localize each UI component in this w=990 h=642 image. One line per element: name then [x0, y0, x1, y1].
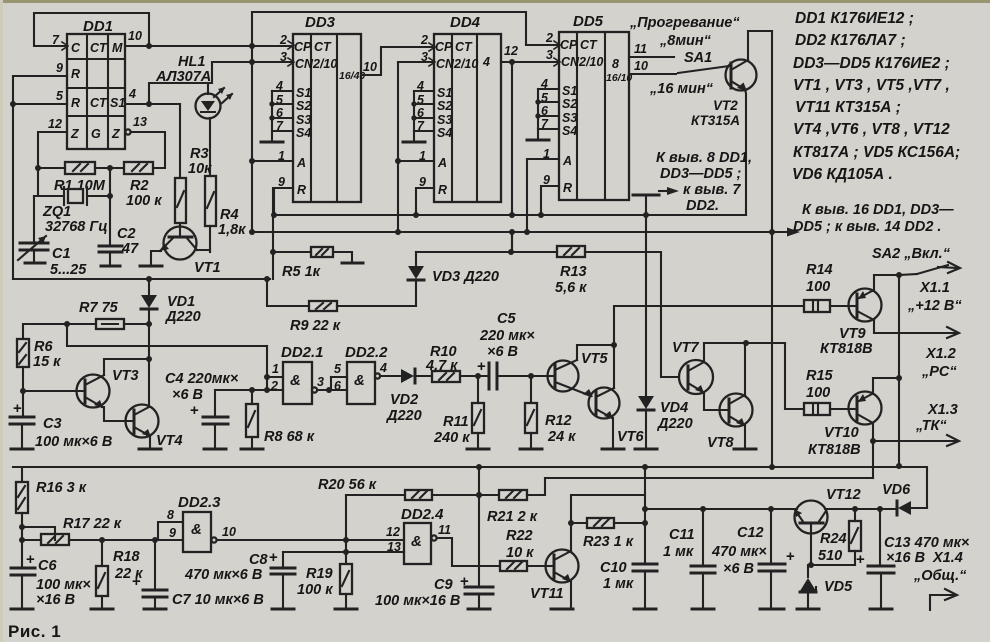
transistor VT7 [672, 340, 729, 410]
wire: main rail from VT2 area down [771, 31, 773, 467]
svg-text:S2: S2 [562, 97, 577, 111]
transistor VT1 [140, 227, 221, 277]
svg-text:2/10: 2/10 [453, 57, 478, 71]
svg-text:+: + [13, 400, 22, 417]
svg-text:VT11: VT11 [530, 586, 564, 602]
transistor VT6 [589, 345, 645, 449]
svg-text:C: C [71, 41, 81, 55]
transistor VT8 [707, 343, 756, 451]
resistor R20 [318, 477, 499, 500]
svg-text:Д220: Д220 [656, 416, 693, 432]
svg-text:5: 5 [334, 362, 342, 376]
capacitor C6 [11, 551, 91, 609]
svg-text:VT8: VT8 [707, 435, 735, 451]
svg-text:S4: S4 [562, 124, 577, 138]
svg-text:9: 9 [278, 175, 285, 189]
svg-text:R15: R15 [806, 368, 834, 384]
svg-text:S1: S1 [296, 86, 311, 100]
resistor R4 [205, 118, 246, 252]
svg-text:C5: C5 [497, 311, 516, 327]
svg-text:R24: R24 [820, 531, 847, 547]
resistor R3 [175, 104, 212, 227]
right column parts list [792, 10, 960, 183]
svg-text:1: 1 [272, 362, 279, 376]
resistor R19 [297, 564, 357, 609]
svg-text:X1.4: X1.4 [932, 550, 963, 566]
svg-text:5: 5 [56, 89, 64, 103]
svg-text:Z: Z [111, 127, 121, 141]
transistor VT3 [23, 356, 152, 421]
svg-text:DD5 ; к выв. 14 DD2 .: DD5 ; к выв. 14 DD2 . [793, 219, 941, 235]
capacitor C9 [375, 573, 493, 609]
crystal ZQ1 [34, 187, 110, 235]
resistor R11 [433, 376, 489, 449]
svg-text:CP: CP [435, 40, 453, 54]
wire: collectors to R14 line [614, 306, 804, 345]
svg-text:R3: R3 [190, 146, 209, 162]
svg-text:„8мин“: „8мин“ [659, 33, 712, 49]
wire: DD1 row2 to DD3 CN [212, 61, 293, 63]
svg-text:4: 4 [482, 55, 490, 69]
svg-text:„+12 В“: „+12 В“ [907, 298, 962, 314]
svg-text:+: + [132, 573, 141, 590]
svg-text:R21 2 к: R21 2 к [487, 509, 538, 525]
wire: C4/R8 to DD2.1 input [215, 389, 283, 391]
svg-text:C10: C10 [600, 560, 627, 576]
svg-text:100 к: 100 к [297, 582, 333, 598]
svg-text:DD2.: DD2. [686, 198, 719, 214]
svg-text:3: 3 [280, 50, 287, 64]
transistor VT12 [794, 487, 861, 568]
resistor R21 [487, 478, 545, 525]
switch SA2 [872, 246, 960, 275]
svg-text:24 к: 24 к [547, 429, 576, 445]
svg-text:×6 В: ×6 В [172, 387, 203, 403]
svg-text:DD4: DD4 [450, 14, 481, 31]
diode VD6 [882, 482, 927, 515]
wire: top frame to DD4/DD5 CP [252, 12, 559, 45]
svg-text:100 мк×: 100 мк× [36, 577, 91, 593]
capacitor C12 [711, 506, 795, 609]
svg-text:S2: S2 [437, 99, 452, 113]
wire: DD3 pin1 A [252, 160, 293, 162]
svg-text:470 мк×6 В: 470 мк×6 В [184, 567, 262, 583]
svg-text:9: 9 [169, 526, 176, 540]
svg-text:АЛ307А: АЛ307А [155, 69, 211, 85]
svg-text:12: 12 [48, 117, 62, 131]
capacitor C11 [663, 506, 715, 609]
svg-text:A: A [437, 156, 447, 170]
svg-text:3: 3 [317, 375, 324, 389]
svg-text:10к: 10к [188, 161, 212, 177]
svg-text:DD2.1: DD2.1 [281, 344, 324, 361]
svg-text:S3: S3 [437, 113, 452, 127]
capacitor C10 [600, 560, 657, 609]
svg-text:VT1: VT1 [194, 260, 221, 276]
gate DD2.3 [158, 494, 404, 552]
gate DD2.2 [329, 344, 401, 404]
svg-text:R: R [71, 67, 80, 81]
wire: R7 left to R6 [23, 324, 67, 339]
svg-text:к выв. 7: к выв. 7 [683, 182, 741, 198]
svg-text:VT12: VT12 [826, 487, 861, 503]
svg-text:S4: S4 [296, 126, 311, 140]
svg-text:R6: R6 [34, 339, 53, 355]
transistor VT4 [126, 405, 183, 450]
svg-text:C13 470 мк×: C13 470 мк× [884, 535, 970, 551]
gate DD2.4 [386, 506, 500, 566]
capacitor C4 [165, 371, 239, 449]
svg-text:×16 В: ×16 В [886, 550, 925, 566]
svg-text:Д220: Д220 [164, 309, 201, 325]
svg-text:15 к: 15 к [33, 354, 61, 370]
svg-text:CT: CT [314, 40, 332, 54]
svg-text:100: 100 [806, 385, 830, 401]
resistor R2 [95, 162, 162, 209]
svg-text:11: 11 [634, 42, 647, 56]
wire: riser to supply [511, 232, 513, 252]
wire: DD5 pin9 R [541, 186, 559, 215]
resistor R15 [804, 368, 849, 415]
svg-text:+: + [786, 548, 795, 565]
svg-text:DD3—DD5 К176ИЕ2 ;: DD3—DD5 К176ИЕ2 ; [793, 55, 950, 72]
svg-text:SA2 „Вкл.“: SA2 „Вкл.“ [872, 246, 951, 262]
diode VD1 [141, 279, 201, 407]
transistor VT5 [548, 342, 618, 397]
capacitor C8 [184, 549, 295, 609]
svg-text:VD2: VD2 [390, 392, 418, 408]
svg-text:R4: R4 [220, 207, 239, 223]
diode VD4 (to reset line) [635, 215, 693, 449]
capacitor C2 [99, 226, 139, 266]
svg-text:VT4 ,VT6 , VT8 , VT12: VT4 ,VT6 , VT8 , VT12 [793, 121, 950, 138]
svg-text:VT10: VT10 [824, 425, 859, 441]
svg-text:240 к: 240 к [433, 430, 470, 446]
svg-text:Z: Z [70, 127, 80, 141]
svg-text:R13: R13 [560, 264, 587, 280]
svg-text:100: 100 [806, 279, 830, 295]
wire: pin13 Z to R2 [125, 129, 130, 134]
svg-text:DD1: DD1 [83, 18, 113, 35]
svg-text:1 мк: 1 мк [663, 544, 694, 560]
wire: second rail L2 [545, 477, 873, 479]
wire: vertical V1 from top frame [251, 12, 253, 232]
wire: to VT7 base [661, 252, 679, 377]
svg-text:×16 В: ×16 В [36, 592, 75, 608]
svg-text:G: G [91, 127, 101, 141]
svg-text:13: 13 [387, 540, 401, 554]
wire: VT11 collector branch up [571, 495, 645, 523]
svg-text:1,8к: 1,8к [218, 222, 246, 238]
svg-text:CT: CT [90, 41, 108, 55]
svg-text:10: 10 [128, 29, 142, 43]
wire: pin10 row to DD3 CP [125, 45, 293, 47]
svg-text:CT: CT [90, 96, 108, 110]
svg-text:Д220: Д220 [385, 408, 422, 424]
svg-text:R: R [563, 181, 572, 195]
svg-text:VD6 КД105А .: VD6 КД105А . [792, 166, 893, 183]
svg-text:32768 Гц: 32768 Гц [45, 219, 108, 235]
svg-text:2/10: 2/10 [578, 55, 603, 69]
svg-text:CT: CT [580, 38, 598, 52]
svg-text:К выв. 8 DD1,: К выв. 8 DD1, [656, 150, 752, 166]
svg-text:2: 2 [545, 31, 553, 45]
svg-text:&: & [290, 372, 301, 389]
svg-text:R9 22 к: R9 22 к [290, 318, 341, 334]
transistor VT2 [691, 60, 757, 129]
svg-text:VD3 Д220: VD3 Д220 [432, 269, 499, 285]
svg-text:6: 6 [334, 379, 342, 393]
wire: VT2 collector to rail [748, 31, 772, 60]
svg-text:100 мк×6 В: 100 мк×6 В [35, 434, 112, 450]
LED HL1 АЛ307А [155, 54, 233, 119]
svg-text:100 к: 100 к [126, 193, 162, 209]
svg-text:C11: C11 [669, 527, 695, 543]
wire: riser R20/R19 [345, 495, 347, 564]
resistor R12 [520, 376, 576, 449]
counter DD3 К176ИЕ2 [275, 14, 365, 202]
wire: DD4 pin3 CN / pin1 A riser [398, 61, 434, 63]
svg-text:7: 7 [52, 33, 60, 47]
svg-text:R19: R19 [306, 566, 333, 582]
svg-text:R23 1 к: R23 1 к [583, 534, 634, 550]
svg-text:VT3: VT3 [112, 368, 139, 384]
supply line to arrow К выв.16 [252, 231, 788, 233]
svg-text:S2: S2 [296, 99, 311, 113]
svg-text:5,6 к: 5,6 к [555, 280, 587, 296]
svg-text:R16 3 к: R16 3 к [36, 480, 87, 496]
resistor R13 [511, 246, 661, 296]
svg-text:R1 10М: R1 10М [54, 178, 106, 194]
wire: VT2 emitter down [745, 90, 746, 215]
svg-text:C2: C2 [117, 226, 136, 242]
svg-text:VT5: VT5 [581, 351, 609, 367]
resistor R6 [17, 339, 61, 417]
wire: pin9 R [13, 76, 67, 104]
svg-text:VT6: VT6 [617, 429, 645, 445]
zener VD5 [797, 565, 853, 609]
wire: DD3 S-inputs jog to common [261, 91, 293, 142]
svg-text:+: + [460, 573, 469, 590]
DD1 counter IC К176ИЕ12 [67, 18, 125, 149]
transistor VT11 [530, 523, 579, 609]
svg-text:470 мк×: 470 мк× [711, 544, 767, 560]
svg-text:R18: R18 [113, 549, 141, 565]
wire: DD3 out 10 to DD4 CN [361, 47, 434, 75]
diode VD3 [337, 252, 511, 306]
svg-text:VD1: VD1 [167, 294, 195, 310]
wire: to R15 [785, 343, 804, 409]
svg-text:11: 11 [438, 523, 451, 537]
svg-text:A: A [296, 156, 306, 170]
svg-text:2: 2 [279, 33, 287, 47]
svg-text:DD2.4: DD2.4 [401, 506, 444, 523]
svg-text:+: + [477, 358, 486, 375]
resistor R24 [818, 506, 861, 565]
svg-text:CP: CP [560, 38, 578, 52]
svg-text:8: 8 [167, 508, 174, 522]
svg-text:S3: S3 [562, 111, 577, 125]
wire: 509 line to VD6 [645, 508, 797, 510]
svg-text:R: R [297, 183, 306, 197]
resistor R16 [13, 467, 87, 568]
resistor R17 [22, 516, 183, 545]
svg-text:„16 мин“: „16 мин“ [649, 81, 714, 97]
svg-text:S3: S3 [296, 113, 311, 127]
svg-text:&: & [411, 533, 422, 550]
svg-text:VD5: VD5 [824, 579, 853, 595]
svg-text:„Общ.“: „Общ.“ [913, 568, 967, 584]
svg-text:C6: C6 [38, 558, 57, 574]
svg-text:DD5: DD5 [573, 13, 604, 30]
svg-text:C7 10 мк×6 В: C7 10 мк×6 В [172, 592, 264, 608]
svg-text:VT11 КТ315А ;: VT11 КТ315А ; [795, 99, 901, 116]
svg-text:SA1: SA1 [684, 50, 712, 66]
svg-text:КТ818В: КТ818В [820, 341, 873, 357]
svg-text:Рис. 1: Рис. 1 [8, 622, 61, 641]
connector X1.4 mark [930, 589, 957, 610]
resistor R22 [500, 528, 546, 571]
svg-text:R5 1к: R5 1к [282, 264, 321, 280]
svg-text:„ТК“: „ТК“ [915, 418, 947, 434]
wire: pin12 Z [38, 132, 67, 196]
svg-text:C3: C3 [43, 416, 62, 432]
svg-text:10 к: 10 к [506, 545, 534, 561]
resistor R18 [91, 537, 143, 609]
svg-text:R20 56 к: R20 56 к [318, 477, 377, 493]
rail +12V vertical [898, 275, 900, 466]
svg-text:12: 12 [504, 44, 518, 58]
svg-text:R8 68 к: R8 68 к [264, 429, 315, 445]
svg-text:2: 2 [270, 379, 278, 393]
svg-text:S1: S1 [110, 96, 125, 110]
wire: small jog at R17 [22, 527, 55, 540]
svg-text:C8: C8 [249, 552, 268, 568]
resistor R5 [273, 247, 363, 280]
svg-text:510: 510 [818, 548, 842, 564]
svg-text:CN: CN [295, 57, 314, 71]
svg-text:4: 4 [379, 361, 387, 375]
svg-text:R14: R14 [806, 262, 833, 278]
svg-text:DD1 К176ИЕ12 ;: DD1 К176ИЕ12 ; [795, 10, 914, 27]
svg-text:X1.3: X1.3 [927, 402, 958, 418]
transistor VT9 [820, 275, 959, 357]
wire: DD5 outputs 11,10 [629, 56, 674, 58]
resistor R14 [804, 262, 849, 312]
wire: reset line R [274, 214, 746, 216]
wire: DD5 pin1 A riser to supply line [527, 158, 559, 160]
svg-text:3: 3 [546, 48, 553, 62]
wire: pin5 R to left border [13, 103, 67, 105]
svg-text:R2: R2 [130, 178, 149, 194]
svg-text:КТ817А ; VD5 КС156А;: КТ817А ; VD5 КС156А; [793, 144, 960, 161]
svg-text:CP: CP [294, 40, 312, 54]
svg-text:„Прогревание“: „Прогревание“ [629, 15, 740, 31]
svg-text:VT7: VT7 [672, 340, 700, 356]
svg-text:12: 12 [386, 525, 400, 539]
left border wire [12, 104, 14, 279]
wire: VT12 base line [811, 564, 855, 566]
wire: junction down to DD2.1 input line [67, 324, 267, 346]
capacitor C1 (trimmer) [18, 196, 87, 278]
svg-text:CN: CN [561, 55, 580, 69]
svg-text:2: 2 [420, 33, 428, 47]
svg-text:+: + [269, 549, 278, 566]
wire: DD4 out 12 to DD5 CN [501, 61, 559, 63]
svg-text:4: 4 [128, 87, 136, 101]
svg-text:HL1: HL1 [178, 54, 205, 70]
svg-text:220 мк×: 220 мк× [479, 328, 535, 344]
svg-text:A: A [562, 154, 572, 168]
svg-text:1 мк: 1 мк [603, 576, 634, 592]
svg-text:„РС“: „РС“ [921, 364, 957, 380]
resistor R9 [267, 279, 341, 334]
svg-text:+: + [190, 402, 199, 419]
counter DD5 К176ИЕ2 [540, 13, 632, 200]
resistor R8 [241, 390, 315, 449]
svg-text:10: 10 [222, 525, 236, 539]
svg-text:DD2.3: DD2.3 [178, 494, 221, 511]
svg-text:2/10: 2/10 [312, 57, 337, 71]
wire: DD3 pin9 R [274, 188, 293, 215]
svg-text:5...25: 5...25 [50, 262, 87, 278]
wire: DD5 S-inputs jog [527, 89, 559, 140]
ground mark with arrow к выв.7 [633, 150, 752, 215]
svg-text:R17 22 к: R17 22 к [63, 516, 122, 532]
svg-text:R7 75: R7 75 [79, 300, 119, 316]
svg-text:R: R [71, 96, 80, 110]
wire: C9 riser [478, 467, 480, 587]
switch SA1 [678, 66, 729, 73]
svg-text:9: 9 [543, 173, 550, 187]
svg-text:S1: S1 [437, 86, 452, 100]
wire: common line y279 [13, 278, 270, 280]
svg-text:X1.2: X1.2 [925, 346, 956, 362]
capacitor C3 [10, 400, 112, 450]
wire: pin4 S1 to R3/HL1 [125, 103, 180, 105]
svg-text:X1.1: X1.1 [919, 280, 950, 296]
svg-text:M: M [112, 41, 123, 55]
svg-text:10: 10 [363, 60, 377, 74]
resistor R7 [64, 300, 152, 329]
svg-text:VT1 , VT3 , VT5 ,VT7 ,: VT1 , VT3 , VT5 ,VT7 , [793, 77, 950, 94]
svg-text:S4: S4 [437, 126, 452, 140]
svg-text:R11: R11 [443, 414, 469, 430]
wire: vertical x273 pinR/R5/common [272, 188, 274, 279]
resistor R1 [38, 162, 106, 194]
svg-text:9: 9 [419, 175, 426, 189]
svg-text:10: 10 [634, 59, 648, 73]
wire: DD4 pin9 R [416, 188, 434, 215]
svg-text:4,7 к: 4,7 к [425, 358, 458, 374]
svg-text:100 мк×16 В: 100 мк×16 В [375, 593, 460, 609]
svg-text:R12: R12 [545, 413, 572, 429]
resistor R23 [568, 518, 648, 550]
svg-text:VD4: VD4 [660, 400, 688, 416]
wire: VT7/VT8 collector line [704, 342, 785, 344]
svg-text:DD3: DD3 [305, 14, 336, 31]
svg-text:DD2 К176ЛА7 ;: DD2 К176ЛА7 ; [795, 32, 906, 49]
svg-text:13: 13 [133, 115, 147, 129]
svg-text:К выв. 16 DD1, DD3—: К выв. 16 DD1, DD3— [802, 202, 954, 218]
svg-text:S1: S1 [562, 84, 577, 98]
svg-text:КТ818В: КТ818В [808, 442, 861, 458]
counter DD4 К176ИЕ2 [416, 14, 501, 202]
svg-text:VT4: VT4 [156, 433, 183, 449]
svg-text:CN: CN [436, 57, 455, 71]
svg-text:R22: R22 [506, 528, 533, 544]
gate DD2.1 [270, 344, 332, 404]
